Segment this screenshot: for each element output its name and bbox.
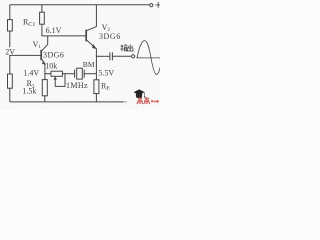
crystal BM plates: [75, 70, 85, 78]
wire wiper loop: [55, 74, 65, 87]
wire base V1: [10, 54, 41, 56]
wire V2 collector to rail: [95, 5, 97, 27]
crystal BM body: [77, 68, 83, 79]
wire bottom rail: [10, 101, 124, 103]
wire left vertical mid: [9, 31, 11, 55]
wire emitter V1 to pot: [45, 73, 51, 75]
wire pot to crystal: [62, 73, 74, 75]
wire top supply rail: [10, 4, 150, 6]
watermark graduation cap: [134, 89, 146, 98]
wire left vertical bottom: [9, 88, 11, 102]
resistor lower bias (unlabeled): [8, 74, 13, 88]
capacitor output coupling: [110, 52, 113, 60]
wire capacitor to terminal: [113, 55, 132, 57]
wire left vertical top: [9, 5, 11, 20]
wire output: [96, 55, 109, 57]
plus sign supply polarity: [155, 2, 160, 8]
transistor V2: [86, 27, 96, 49]
resistor RC1: [40, 12, 45, 24]
transistor V1: [41, 36, 48, 65]
wire left vertical low: [9, 55, 11, 74]
waveform axis: [136, 57, 160, 59]
wire V2 emitter vertical: [95, 48, 97, 79]
wire crystal to V2 emitter: [84, 73, 96, 75]
wire RE to rail: [95, 94, 97, 102]
watermark red text: [137, 97, 151, 104]
waveform sine: [137, 41, 160, 75]
resistor RC1 leads: [41, 5, 43, 36]
potentiometer 10k: [51, 71, 62, 76]
label 2V: [5, 47, 16, 56]
wire collector node to V2 base: [42, 35, 86, 37]
wire R3 to rail: [44, 96, 46, 102]
pot wiper arrow: [54, 79, 56, 83]
terminal output: [132, 55, 135, 58]
resistor R upper bias (unlabeled): [8, 20, 13, 31]
label 输出 (output) drawn strokes: [120, 44, 133, 51]
resistor R3: [42, 80, 47, 96]
resistor RE: [94, 80, 99, 94]
wire V1 emitter vertical: [44, 64, 46, 80]
terminal + supply: [150, 4, 153, 7]
